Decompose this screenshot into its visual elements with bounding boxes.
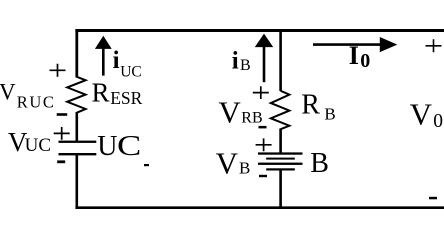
wire middle branch mid segment <box>279 129 282 154</box>
arrow i_B <box>255 34 273 83</box>
svg-text:0: 0 <box>360 50 370 72</box>
svg-text:RB: RB <box>241 110 262 127</box>
svg-text:I: I <box>349 41 359 70</box>
svg-text:UC: UC <box>120 63 142 80</box>
plus V_UC <box>54 127 70 140</box>
wire left branch middle segment <box>76 112 79 141</box>
capacitor UC bottom plate <box>59 153 97 155</box>
svg-text:UC: UC <box>25 135 51 156</box>
svg-text:B: B <box>240 57 251 74</box>
svg-text:U: U <box>97 131 117 162</box>
svg-text:V: V <box>216 146 239 181</box>
minus V_RB <box>259 126 267 128</box>
svg-text:B: B <box>324 105 335 124</box>
svg-text:C: C <box>117 131 141 162</box>
battery B plate 2 short <box>266 158 295 160</box>
wire left branch top segment <box>75 29 78 78</box>
minus V_RUC <box>57 113 67 116</box>
svg-text:RUC: RUC <box>17 93 56 112</box>
svg-text:i: i <box>113 47 120 74</box>
svg-text:R: R <box>301 89 320 120</box>
svg-text:B: B <box>239 159 250 178</box>
svg-text:B: B <box>310 148 329 179</box>
battery B plate 3 long <box>258 163 303 165</box>
plus V_RB <box>253 86 269 99</box>
battery B plate 4 short <box>266 168 295 170</box>
minus output <box>429 197 437 200</box>
minus V_B <box>259 175 267 177</box>
plus output <box>426 39 442 52</box>
arrow I_0 <box>313 37 397 52</box>
svg-text:ESR: ESR <box>110 88 142 108</box>
arrow i_UC <box>95 36 112 76</box>
svg-text:i: i <box>232 48 239 75</box>
wire left branch bottom segment <box>76 155 79 209</box>
minus after UC <box>144 164 149 166</box>
svg-text:V: V <box>410 97 433 132</box>
svg-text:R: R <box>92 78 110 108</box>
plus V_B <box>256 138 272 151</box>
svg-text:0: 0 <box>433 111 443 132</box>
capacitor UC top plate <box>59 141 97 143</box>
svg-text:V: V <box>218 95 241 130</box>
resistor R_B zigzag <box>271 91 290 129</box>
resistor R_ESR zigzag <box>67 77 85 113</box>
wire bottom rail <box>75 206 444 209</box>
wire middle branch bottom segment <box>279 170 282 210</box>
svg-text:V: V <box>0 80 16 105</box>
wire middle branch top segment <box>279 29 282 91</box>
plus V_RUC <box>50 64 66 77</box>
minus V_UC <box>57 160 65 163</box>
wire top rail <box>75 29 444 32</box>
battery B plate 1 long <box>258 152 303 154</box>
